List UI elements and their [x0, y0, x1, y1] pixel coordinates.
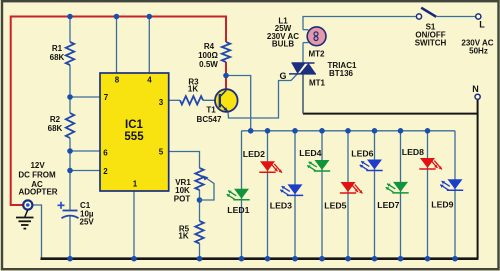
op-amp U: IC1 555 timer body — [100, 73, 169, 191]
wire collector node to LED top bus (feeder) — [226, 76, 251, 131]
LED LED9 — [431, 179, 463, 209]
wire LED9 branch vertical — [454, 131, 456, 259]
svg-text:68K: 68K — [50, 53, 65, 62]
LED LED7 — [377, 182, 408, 210]
resistor R4 — [222, 42, 230, 62]
svg-text:R2: R2 — [50, 115, 61, 124]
node LED6 top bus junction — [372, 128, 378, 134]
svg-text:12V: 12V — [30, 161, 45, 170]
wire C1 bottom to ground bus — [69, 217, 71, 259]
LED LED2 — [243, 149, 282, 173]
svg-text:MT1: MT1 — [309, 79, 326, 88]
svg-text:ADOPTER: ADOPTER — [18, 188, 57, 197]
wire LED3 branch vertical — [294, 131, 296, 259]
node LED3 ground bus junction — [292, 256, 298, 262]
wire ground/neutral bottom bus (black) — [41, 257, 478, 260]
svg-text:DC FROM: DC FROM — [18, 171, 56, 180]
wire bulb stubs — [303, 29, 309, 31]
svg-text:7: 7 — [104, 93, 109, 102]
wire triac MT1 lead — [302, 74, 304, 114]
node LED7 top bus junction — [398, 128, 404, 134]
LED LED4 — [299, 148, 330, 171]
svg-text:LED9: LED9 — [431, 200, 453, 210]
wire T1 emitter to triac gate G — [228, 74, 297, 118]
node LED8 ground bus junction — [425, 256, 431, 262]
capacitor C1 (polarized) — [63, 210, 78, 212]
node 12V DC input terminal — [23, 200, 32, 209]
svg-text:1K: 1K — [178, 232, 188, 241]
svg-text:LED4: LED4 — [299, 148, 321, 158]
wire R1/R2 column x=70 top rail to C1 — [69, 17, 71, 43]
LED LED6 — [351, 149, 382, 171]
svg-text:BC547: BC547 — [197, 115, 222, 124]
ground symbol — [25, 210, 28, 217]
wire pin7 to R1/R2 junction — [70, 96, 100, 98]
svg-text:SWITCH: SWITCH — [415, 39, 447, 48]
svg-text:100Ω: 100Ω — [198, 51, 218, 60]
wire pin5 to VR1 top — [169, 152, 200, 169]
node LED5 ground bus junction — [345, 256, 351, 262]
node LED5 top bus junction — [345, 128, 351, 134]
svg-text:LED3: LED3 — [270, 201, 292, 211]
svg-text:LED5: LED5 — [324, 201, 346, 211]
node junction R1/R2/pin7 — [67, 94, 73, 100]
wire pin6 to R2/C1 junction — [70, 150, 100, 152]
node LED7 ground bus junction — [398, 256, 404, 262]
wire LED6 branch vertical — [374, 131, 376, 259]
svg-text:5: 5 — [159, 148, 164, 157]
node rail junction pin4 — [147, 14, 153, 20]
wire DC terminal to ground bus (bottom left) — [33, 205, 42, 259]
svg-text:LED7: LED7 — [377, 200, 399, 210]
wire triac MT1 to N vertical (black) — [303, 113, 478, 115]
svg-text:LED1: LED1 — [227, 205, 249, 215]
node LED4 top bus junction — [319, 128, 325, 134]
node LED2 ground bus junction — [265, 256, 271, 262]
svg-text:6: 6 — [103, 149, 108, 158]
label C1 plus sign — [58, 204, 65, 206]
node junction feeder on LED bus — [248, 128, 254, 134]
wire R3 to T1 base — [203, 99, 220, 101]
LED LED5 — [324, 182, 362, 211]
svg-text:BULB: BULB — [272, 40, 294, 49]
triac TRIAC1 BT136 — [292, 62, 315, 64]
potentiometer VR1 body — [195, 168, 203, 190]
node junction R4/collector/LED feeder — [223, 73, 229, 79]
wire pin8 stub to +12V rail — [116, 17, 118, 74]
svg-text:1K: 1K — [188, 84, 198, 93]
svg-text:2: 2 — [103, 167, 108, 176]
svg-text:BT136: BT136 — [329, 69, 354, 78]
LED LED8 — [402, 147, 442, 169]
resistor R3 — [180, 96, 203, 104]
wire pin3 to R3 — [169, 99, 180, 101]
svg-text:0.5W: 0.5W — [199, 60, 218, 69]
svg-text:R4: R4 — [204, 42, 215, 51]
svg-text:MT2: MT2 — [309, 50, 326, 59]
node LED6 ground bus junction — [372, 256, 378, 262]
node ground bus junction C1 — [67, 256, 73, 262]
svg-text:8: 8 — [115, 76, 120, 85]
svg-text:LED2: LED2 — [243, 149, 265, 159]
svg-text:G: G — [279, 71, 286, 81]
svg-text:T1: T1 — [206, 106, 216, 115]
switch S1 right contact / L terminal — [476, 14, 481, 19]
node rail junction pin8 — [114, 14, 120, 20]
node LED8 top bus junction — [425, 128, 431, 134]
node N terminal — [475, 94, 480, 99]
node junction R2/pin6 — [67, 148, 73, 154]
potentiometer VR1 wiper arrow — [200, 177, 215, 200]
LED LED1 — [227, 189, 250, 215]
wire LED4 branch vertical — [321, 131, 323, 259]
wire pin2 junction — [70, 170, 100, 172]
svg-text:1: 1 — [133, 180, 138, 189]
wire pin1 to ground bus — [133, 191, 135, 259]
node junction VR1 wiper tap — [197, 197, 203, 203]
resistor R2 — [66, 113, 74, 138]
svg-text:4: 4 — [147, 76, 152, 85]
svg-text:N: N — [472, 84, 479, 94]
node ground bus junction pin1 — [131, 256, 137, 262]
node +12V rail junction at R1 — [67, 14, 73, 20]
wire +12V rail (red) from DC input terminal up and across the top — [11, 17, 226, 206]
svg-text:IC1: IC1 — [125, 119, 144, 131]
node LED1 ground bus junction — [239, 256, 245, 262]
svg-text:555: 555 — [124, 131, 144, 143]
node ground bus junction R5 — [197, 256, 203, 262]
wire LED7 branch vertical — [400, 131, 402, 259]
wire red segment R4 bottom to T1 collector through junction — [225, 62, 227, 90]
node junction pin2/C1 — [67, 168, 73, 174]
wire R5 bottom to ground bus — [199, 244, 201, 259]
lamp L1 230V bulb — [307, 27, 326, 46]
svg-text:L: L — [479, 20, 485, 30]
resistor R1 — [66, 42, 74, 65]
svg-text:LED6: LED6 — [351, 149, 373, 159]
wire LED5 branch vertical — [347, 131, 349, 259]
wire bulb bottom to triac MT2 — [302, 43, 304, 63]
svg-text:POT: POT — [174, 195, 191, 204]
node LED9 ground bus junction — [452, 256, 458, 262]
wire pin4 stub to +12V rail — [148, 17, 150, 74]
transistor Q T1 BC547 — [215, 89, 238, 112]
svg-text:50Hz: 50Hz — [469, 47, 488, 56]
switch S1 left contact — [416, 14, 421, 19]
node LED2 top bus junction — [265, 128, 271, 134]
wire top-right mains line: bulb top to switch S1 and L — [303, 17, 416, 30]
wire N terminal down right side (black) — [477, 100, 479, 260]
wire LED8 branch vertical — [427, 131, 429, 259]
wire LED1 branch vertical — [241, 131, 243, 259]
svg-text:68K: 68K — [48, 124, 63, 133]
wire LED anode top bus — [242, 130, 456, 132]
svg-text:R1: R1 — [52, 44, 63, 53]
node LED3 top bus junction — [292, 128, 298, 134]
svg-text:3: 3 — [159, 98, 164, 107]
wire LED2 branch vertical — [267, 131, 269, 259]
wire VR1 bottom to R5 top — [199, 190, 201, 221]
LED LED3 — [270, 184, 303, 210]
switch S1 lever — [421, 8, 436, 17]
resistor R5 — [195, 221, 203, 244]
svg-text:25V: 25V — [80, 218, 95, 227]
svg-text:LED8: LED8 — [402, 147, 424, 157]
node LED4 ground bus junction — [319, 256, 325, 262]
